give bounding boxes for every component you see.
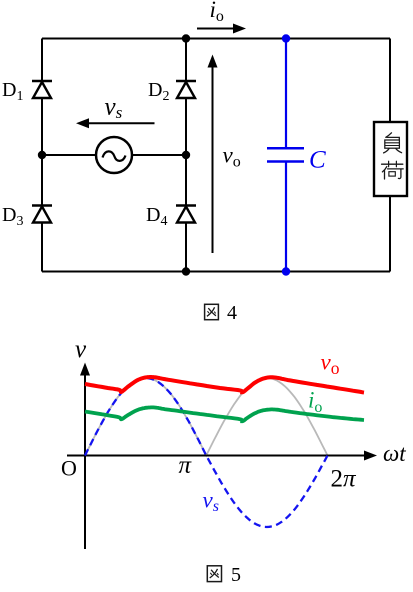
- node D (mid bottom): [182, 267, 190, 275]
- caption fig4: [205, 304, 219, 319]
- wire middle branch: [185, 39, 187, 272]
- svg-text:vo: vo: [223, 143, 241, 171]
- y axis: [80, 363, 90, 550]
- wire source branch: [42, 154, 186, 156]
- svg-text:v: v: [75, 336, 87, 363]
- svg-text:vo: vo: [321, 350, 340, 379]
- svg-text:ωt: ωt: [383, 441, 406, 466]
- svg-text:2π: 2π: [331, 466, 358, 493]
- AC source V1: [96, 137, 132, 173]
- svg-text:vs: vs: [105, 94, 123, 123]
- svg-text:π: π: [179, 452, 193, 479]
- caption fig5: [207, 566, 221, 582]
- arrow vo: [208, 55, 218, 254]
- curve vs rectified (gray): [85, 378, 328, 456]
- svg-text:5: 5: [231, 564, 241, 586]
- wire top rail: [42, 38, 390, 40]
- diode D3: [32, 206, 52, 223]
- kanji FU (load, top char): [386, 133, 392, 138]
- load box: [374, 122, 407, 196]
- wire right branch upper: [389, 39, 391, 123]
- diode D1: [32, 81, 52, 98]
- svg-text:D4: D4: [146, 204, 167, 229]
- svg-text:D2: D2: [148, 79, 169, 104]
- node E (cap top, blue): [282, 34, 290, 42]
- svg-text:io: io: [210, 0, 224, 25]
- svg-text:D1: D1: [2, 79, 23, 104]
- node F (cap bottom, blue): [282, 267, 290, 275]
- node B (mid top): [182, 34, 190, 42]
- kanji ZU (figure): [207, 566, 221, 582]
- svg-text:O: O: [61, 456, 77, 481]
- diode D2: [176, 81, 196, 98]
- capacitor C plates: [267, 148, 304, 161]
- diode D4: [176, 206, 196, 223]
- x axis: [67, 451, 377, 461]
- label load: [382, 133, 404, 179]
- capacitor C wires: [285, 39, 287, 272]
- wire left branch: [41, 39, 43, 272]
- curve vs (blue dashed): [85, 378, 328, 527]
- kanji KA (load, bottom char): [382, 163, 403, 165]
- wire right branch lower: [389, 196, 391, 272]
- node C (mid center): [182, 151, 190, 159]
- svg-text:4: 4: [227, 302, 237, 324]
- kanji ZU (figure): [205, 304, 219, 319]
- curve io (green): [85, 407, 364, 421]
- svg-text:C: C: [309, 147, 326, 174]
- node A (left mid): [38, 151, 46, 159]
- svg-text:io: io: [308, 388, 322, 417]
- svg-text:D3: D3: [2, 204, 23, 229]
- arrow vs: [76, 118, 155, 128]
- curve vo (red): [85, 377, 364, 393]
- svg-text:vs: vs: [203, 488, 219, 516]
- arrow io: [197, 24, 246, 34]
- wire bottom rail: [42, 271, 390, 273]
